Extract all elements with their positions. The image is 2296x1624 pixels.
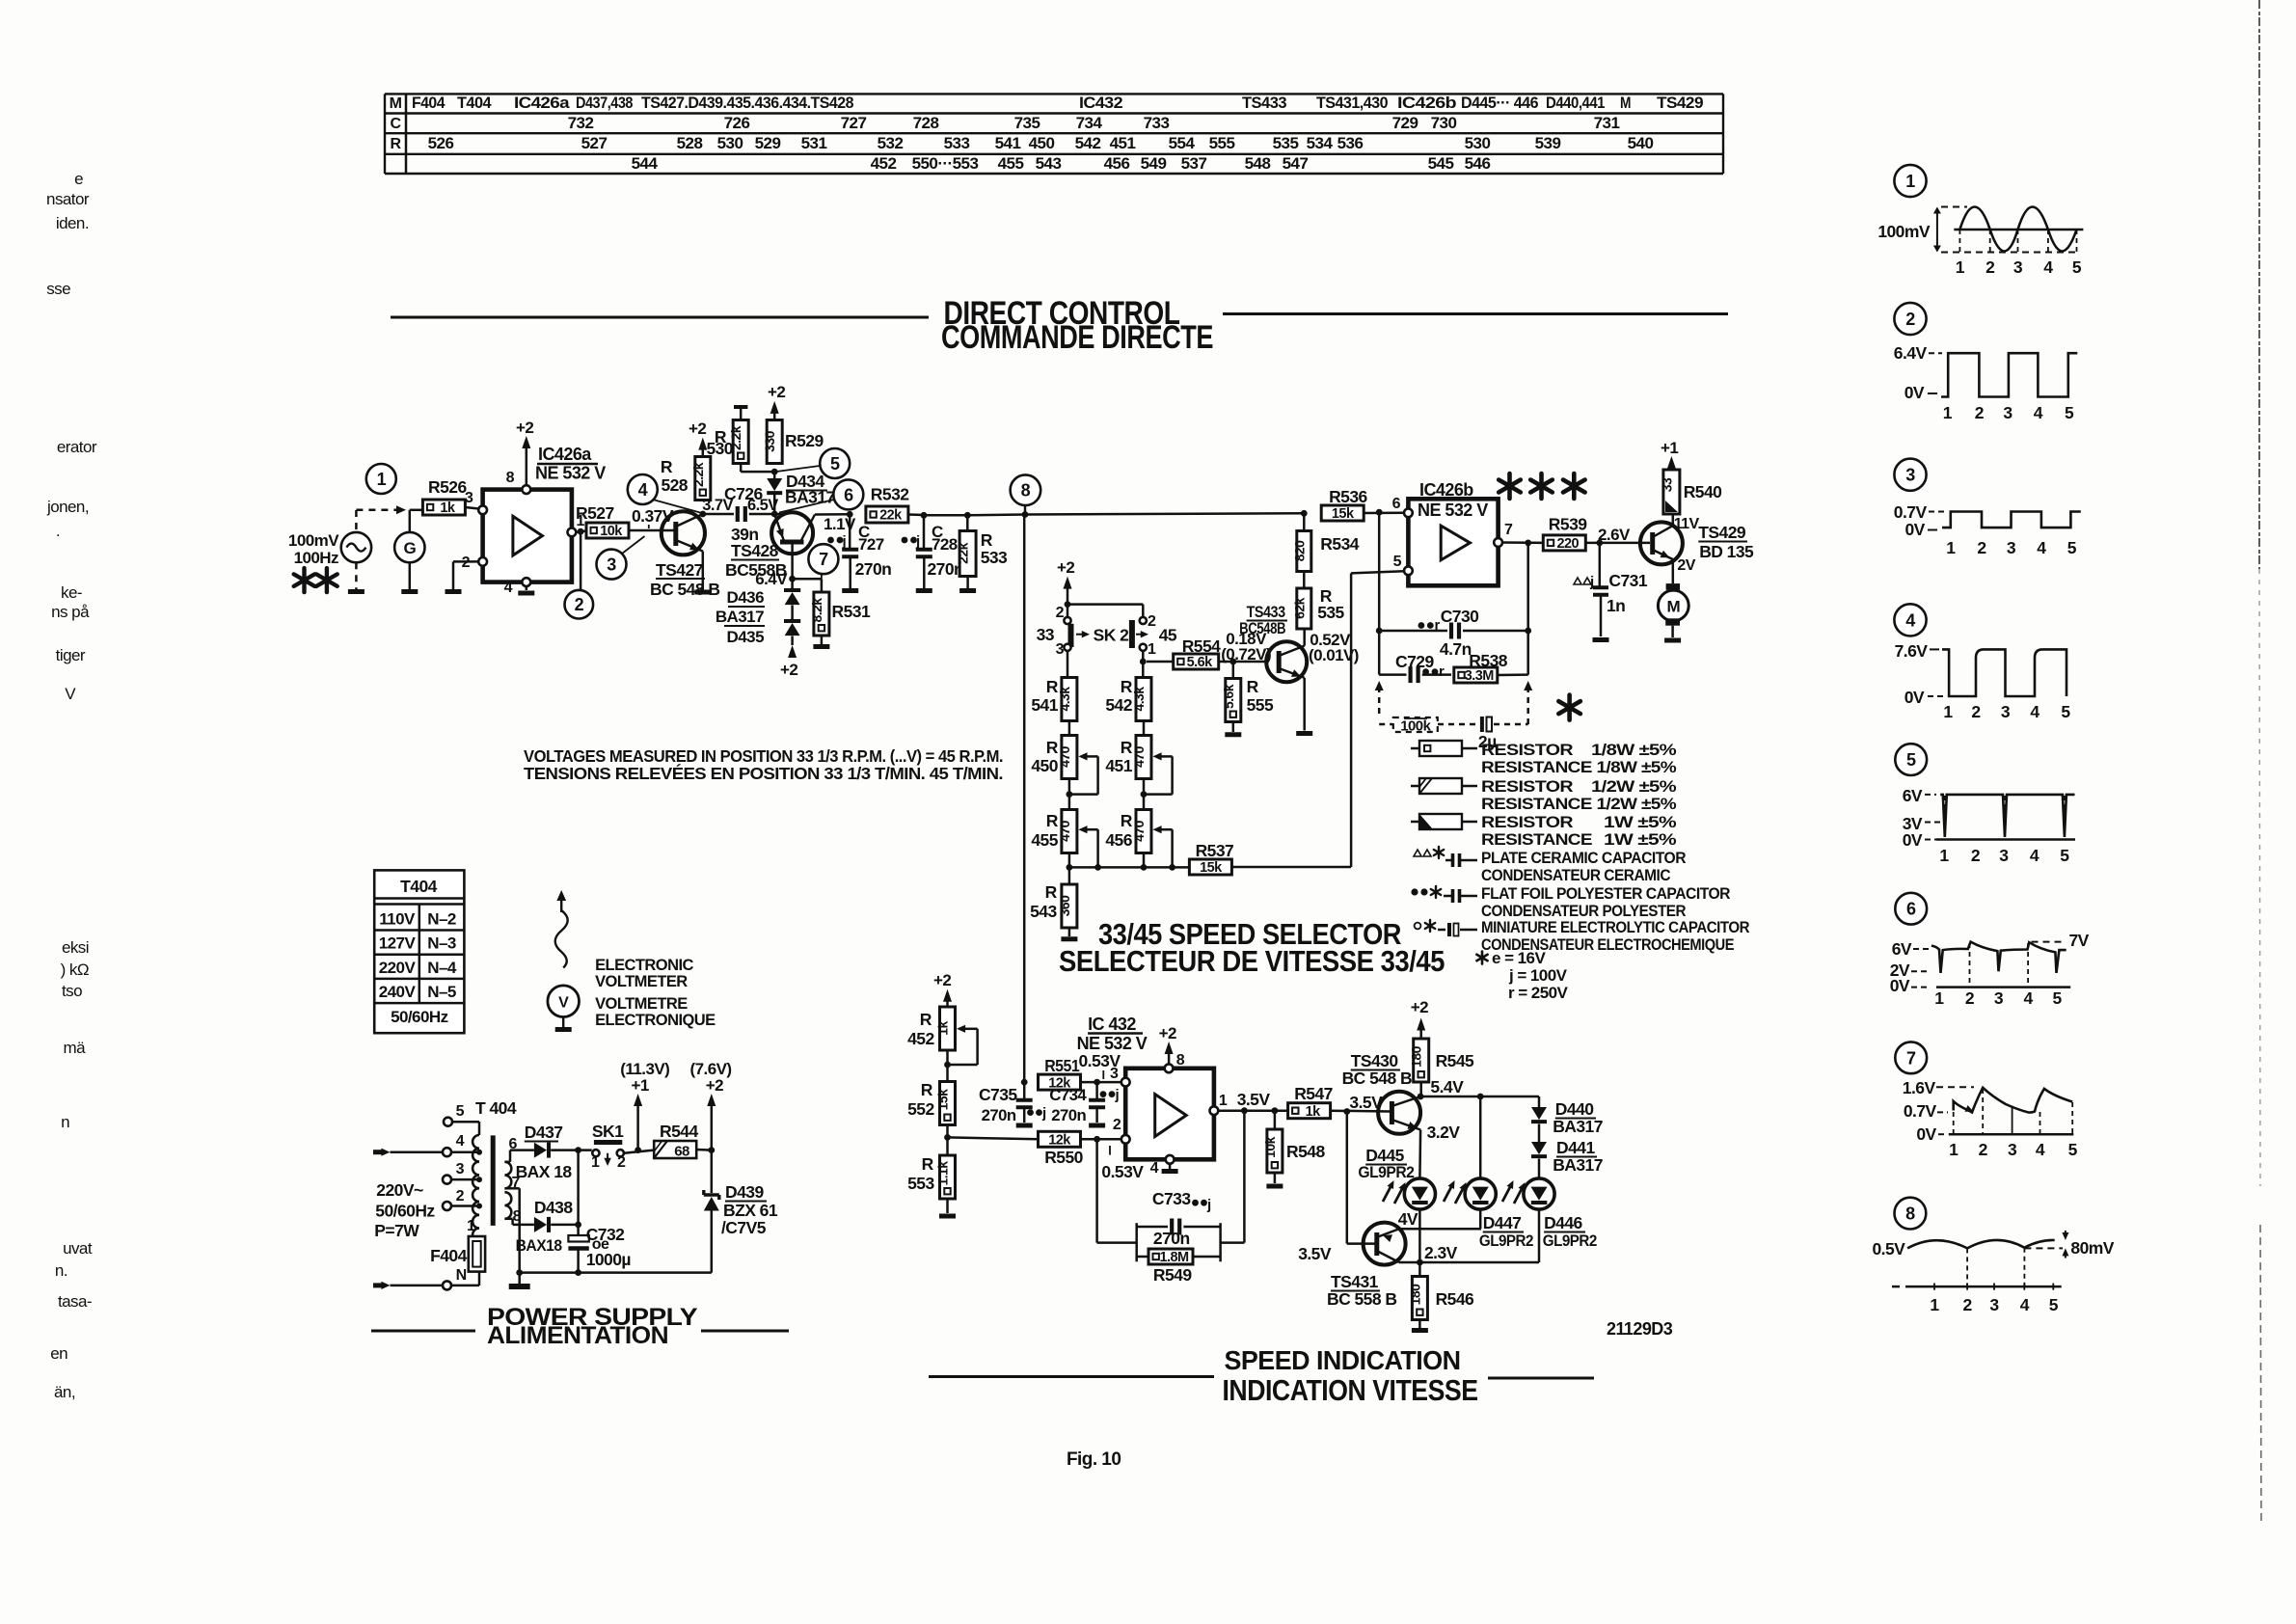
svg-text:1: 1 [1934, 988, 1944, 1008]
wire 4V link [1399, 1228, 1481, 1231]
svg-text:BC 558 B: BC 558 B [1327, 1289, 1396, 1309]
resistor R527 [576, 503, 629, 539]
wire 45 contact to R542 [1142, 651, 1145, 677]
svg-text:543: 543 [1030, 902, 1057, 921]
wire SK1 to R544 [624, 1150, 654, 1153]
svg-text:D440,441: D440,441 [1546, 94, 1605, 112]
test point 1 [366, 464, 396, 494]
svg-text:68: 68 [674, 1144, 689, 1160]
svg-text:3: 3 [1994, 988, 2004, 1008]
svg-text:15k: 15k [1200, 860, 1223, 876]
svg-text:D438: D438 [534, 1198, 573, 1217]
svg-text:R551: R551 [1044, 1056, 1080, 1075]
rail stub above R530 [734, 407, 747, 420]
svg-text:0V: 0V [1916, 1124, 1936, 1144]
svg-text:R: R [921, 1080, 933, 1099]
svg-text:NE 532 V: NE 532 V [1418, 501, 1488, 520]
svg-text:+2: +2 [1057, 558, 1074, 577]
legend resistor 1W [1411, 813, 1677, 849]
wire 2.3V bus [1399, 1243, 1539, 1262]
wire 5.4V rail [1420, 1096, 1539, 1098]
ground [348, 589, 365, 594]
note voltages measured [524, 746, 1003, 783]
wire R552 R553 [946, 1125, 949, 1155]
capacitor C734 [1049, 1082, 1119, 1124]
svg-text:3: 3 [607, 555, 616, 575]
diode D438 [516, 1198, 574, 1255]
svg-text:5: 5 [2049, 1295, 2059, 1314]
svg-text:ALIMENTATION: ALIMENTATION [487, 1322, 668, 1349]
svg-text:8.2k: 8.2k [809, 598, 824, 623]
supply +2 to R528 [689, 420, 707, 457]
svg-text:TS433: TS433 [1242, 94, 1286, 112]
T404 voltage table [374, 870, 464, 1033]
svg-text:727: 727 [841, 114, 867, 132]
wire TS433 emitter ground [1303, 678, 1306, 731]
wire D446 to bus [1538, 1209, 1541, 1262]
svg-text:2: 2 [1977, 538, 1986, 557]
wire R536 to pin6 [1364, 512, 1404, 515]
svg-text:BAX 18: BAX 18 [516, 1162, 573, 1181]
waveform 7 [1895, 1042, 2077, 1159]
op-amp IC426a [462, 445, 607, 596]
node bus mid [1141, 864, 1175, 871]
wire ground bus power [520, 1271, 712, 1274]
resistor R538 [1454, 651, 1508, 684]
svg-text:4: 4 [2020, 1295, 2030, 1314]
svg-text:180: 180 [1409, 1045, 1424, 1067]
svg-text:6.4V: 6.4V [755, 570, 788, 588]
transistor TS433 [1239, 603, 1307, 682]
svg-text:3: 3 [465, 490, 473, 506]
svg-text:IC426a: IC426a [538, 445, 592, 464]
supply +2 SK2 [1057, 558, 1074, 621]
svg-text:1: 1 [1219, 1093, 1228, 1109]
svg-text:3.2V: 3.2V [1427, 1123, 1461, 1142]
svg-text:452: 452 [871, 154, 897, 173]
svg-text:2: 2 [1963, 1295, 1973, 1314]
svg-text:erator: erator [57, 438, 97, 456]
labels TS433 voltages [1221, 630, 1271, 663]
svg-text:3: 3 [1056, 641, 1065, 658]
ground [401, 589, 418, 594]
svg-text:tasa-: tasa- [58, 1292, 92, 1311]
svg-text:451: 451 [1110, 134, 1136, 152]
wire R527 to TS427 base [629, 529, 674, 532]
svg-text:N–4: N–4 [427, 959, 457, 977]
svg-text:6: 6 [1906, 900, 1916, 919]
svg-text:220: 220 [1557, 536, 1580, 552]
svg-text:5.6k: 5.6k [1187, 655, 1214, 670]
svg-text:j: j [1589, 574, 1594, 590]
svg-text:r: r [1439, 663, 1445, 680]
resistor R534 [1291, 531, 1359, 572]
svg-text:1: 1 [1943, 403, 1953, 422]
capacitor C735 [979, 1082, 1046, 1124]
svg-text:62k: 62k [1291, 597, 1307, 618]
svg-text:3: 3 [1989, 1295, 1999, 1314]
svg-text:VOLTAGES MEASURED IN POSITI: VOLTAGES MEASURED IN POSITION 33 1/3 R.P… [524, 746, 1003, 766]
supply +2 R452 [933, 971, 952, 1007]
svg-text:F404: F404 [412, 94, 446, 112]
svg-text:D441: D441 [1556, 1138, 1595, 1157]
test point 2 [565, 590, 594, 619]
wire R541 R450 [1068, 721, 1071, 737]
wire R555 ground [1232, 723, 1235, 733]
diodes D436 D435 [716, 579, 800, 646]
svg-text:526: 526 [428, 134, 454, 152]
ground [1664, 638, 1681, 643]
resistor R551 [1039, 1056, 1081, 1091]
wire R553 ground [946, 1199, 949, 1213]
svg-text:D445: D445 [1365, 1146, 1404, 1165]
svg-text:470: 470 [1057, 745, 1072, 767]
svg-text:552: 552 [907, 1099, 934, 1119]
wire R550 left [948, 1137, 1039, 1139]
svg-text:1: 1 [1939, 846, 1949, 865]
svg-text:SELECTEUR DE VITESSE 33/45: SELECTEUR DE VITESSE 33/45 [1059, 944, 1445, 978]
resistor R530 [706, 420, 748, 464]
ground [1296, 731, 1312, 736]
labels TS433 collector voltages [1309, 631, 1359, 664]
svg-text:4: 4 [1150, 1160, 1159, 1177]
parts cross-reference table [385, 94, 1723, 174]
supply +1 to R540 [1661, 439, 1678, 470]
svg-text:IC426b: IC426b [1397, 94, 1456, 112]
svg-text:VOLTMETRE: VOLTMETRE [595, 995, 688, 1013]
resistor R554 [1174, 636, 1221, 670]
svg-text:j: j [1115, 1087, 1120, 1103]
svg-text:än,: än, [54, 1383, 75, 1401]
svg-text:548: 548 [1245, 154, 1271, 173]
resistor R540 [1659, 470, 1722, 514]
svg-text:BAX18: BAX18 [516, 1236, 562, 1255]
svg-text:+2: +2 [689, 420, 706, 438]
svg-text:5.4V: 5.4V [1430, 1077, 1464, 1096]
wire R450 R455 [1068, 779, 1071, 811]
svg-text:2V: 2V [1677, 557, 1695, 574]
svg-text:R529: R529 [785, 431, 824, 450]
resistor R555 [1221, 662, 1274, 722]
svg-text:jonen,: jonen, [46, 498, 89, 516]
svg-text:M: M [1620, 94, 1631, 112]
svg-text:5: 5 [456, 1103, 465, 1120]
wire R539 to TS429 [1585, 542, 1650, 545]
svg-text:5: 5 [2067, 538, 2077, 557]
node R546 [1417, 1259, 1423, 1266]
svg-text:4: 4 [2043, 257, 2053, 277]
svg-text:535: 535 [1273, 134, 1299, 152]
svg-text:1: 1 [1949, 1140, 1958, 1159]
svg-text:4.7n: 4.7n [1440, 639, 1472, 659]
svg-text:D447: D447 [1483, 1213, 1522, 1232]
LED D446 [1502, 1178, 1597, 1250]
svg-text:547: 547 [1283, 154, 1309, 173]
supply +2 to pin 8 [516, 419, 533, 485]
legend resistor 1/8W [1411, 741, 1677, 776]
svg-text:R: R [390, 136, 401, 152]
resistor R548 [1262, 1111, 1326, 1183]
node SK2 top [1065, 601, 1071, 608]
node pin2 [1094, 1136, 1100, 1143]
svg-text:726: 726 [724, 114, 750, 132]
capacitor C730 [1379, 607, 1528, 659]
svg-text:G: G [403, 539, 416, 557]
title POWER SUPPLY [371, 1304, 789, 1349]
supply +2 R545 [1411, 998, 1428, 1038]
wire to 45 contact [1067, 605, 1143, 616]
svg-text:10k: 10k [600, 524, 623, 539]
svg-text:220V~: 220V~ [376, 1180, 423, 1200]
svg-text:TS431,430: TS431,430 [1316, 94, 1388, 112]
svg-text:D445··· 446: D445··· 446 [1461, 94, 1538, 112]
svg-text:RESISTANCE: RESISTANCE [1481, 830, 1592, 849]
ground [916, 588, 932, 593]
ground [959, 588, 976, 593]
resistor R541 [1031, 677, 1077, 721]
resistor R535 [1291, 586, 1344, 629]
svg-text:2: 2 [617, 1154, 626, 1171]
svg-text:127V: 127V [379, 934, 417, 953]
svg-text:270n: 270n [855, 559, 892, 579]
svg-text:ELECTRONIQUE: ELECTRONIQUE [595, 1012, 716, 1029]
ground [555, 1027, 572, 1032]
svg-text:734: 734 [1076, 114, 1103, 132]
svg-text:1: 1 [1148, 641, 1156, 658]
wire to node 8 [967, 513, 1025, 516]
node output [1237, 1090, 1271, 1114]
svg-text:3: 3 [1999, 846, 2009, 865]
node R548 [1272, 1107, 1279, 1114]
svg-text:/C7V5: /C7V5 [721, 1218, 767, 1237]
svg-text:450: 450 [1031, 756, 1058, 775]
voltmeter caption [595, 957, 716, 1029]
resistor R450 preset [1031, 736, 1097, 795]
capacitor C729 [1379, 652, 1451, 683]
wire TS428 collector to node [815, 513, 850, 516]
waveform 4 [1894, 604, 2070, 721]
svg-text:33: 33 [1659, 477, 1674, 492]
svg-text:R: R [1247, 677, 1259, 696]
transistor TS427 [650, 511, 719, 599]
wire R546 ground [1418, 1320, 1421, 1329]
svg-text:D446: D446 [1544, 1213, 1582, 1232]
svg-text:5: 5 [1393, 554, 1402, 570]
label 0.53V pin3 [1079, 1051, 1121, 1082]
svg-text:550···553: 550···553 [912, 154, 979, 173]
svg-text:22k: 22k [956, 542, 971, 563]
svg-text:MINIATURE ELECTROLYTIC CAPAC: MINIATURE ELECTROLYTIC CAPACITOR [1481, 918, 1749, 936]
node C731 [1596, 526, 1631, 546]
svg-text:540: 540 [1628, 134, 1654, 152]
svg-text:470: 470 [1131, 745, 1147, 767]
svg-text:2: 2 [1975, 403, 1985, 422]
svg-text:2.3V: 2.3V [1424, 1243, 1458, 1262]
svg-text:P=7W: P=7W [374, 1221, 419, 1240]
svg-text:100mV: 100mV [1877, 222, 1931, 241]
svg-text:5: 5 [830, 454, 840, 474]
svg-text:1: 1 [591, 1154, 600, 1171]
svg-text:R545: R545 [1436, 1051, 1474, 1070]
svg-text:3: 3 [2001, 702, 2011, 721]
svg-text:+2: +2 [780, 661, 797, 679]
svg-text:R534: R534 [1320, 534, 1359, 554]
svg-text:0V: 0V [1890, 976, 1910, 995]
svg-text:(0.01V): (0.01V) [1309, 646, 1359, 664]
switch SK2 45 side [1132, 613, 1177, 658]
svg-text:R: R [661, 457, 673, 476]
svg-text:tso: tso [62, 982, 82, 1000]
svg-text:542: 542 [1075, 134, 1101, 152]
svg-text:0V: 0V [1904, 520, 1925, 539]
svg-text:528: 528 [677, 134, 703, 152]
svg-text:536: 536 [1337, 134, 1364, 152]
wire TS428 base down [791, 545, 794, 580]
svg-text:T404: T404 [457, 94, 492, 112]
svg-text:546: 546 [1465, 154, 1491, 173]
page edge lines [2259, 0, 2261, 1524]
svg-text:sse: sse [46, 280, 70, 298]
ground [1061, 936, 1077, 941]
wire R554 wires [1147, 661, 1266, 663]
svg-text:545: 545 [1428, 154, 1454, 173]
svg-text:RESISTOR: RESISTOR [1481, 741, 1573, 759]
svg-text:R532: R532 [871, 485, 909, 504]
wire 6.4V to R531 [793, 579, 822, 591]
svg-text:4: 4 [2036, 1140, 2045, 1159]
node rectifier [575, 1147, 581, 1153]
wire TS430 emitter to D445 [1419, 1123, 1460, 1178]
LED D445 [1358, 1146, 1435, 1209]
svg-text:7: 7 [1906, 1048, 1916, 1068]
svg-text:0V: 0V [1904, 383, 1925, 402]
svg-text:4: 4 [2030, 846, 2039, 865]
svg-text:+2: +2 [1159, 1024, 1176, 1042]
svg-text:4: 4 [2037, 538, 2046, 557]
svg-text:5.6k: 5.6k [1221, 684, 1236, 709]
svg-text:j: j [1041, 1105, 1046, 1122]
svg-text:R526: R526 [428, 477, 467, 497]
ground [1162, 1169, 1178, 1174]
wire source to ground [355, 562, 358, 589]
svg-text:0.7V: 0.7V [1894, 502, 1928, 522]
svg-text:5: 5 [1906, 750, 1916, 770]
svg-text:3: 3 [2008, 1140, 2017, 1159]
svg-text:+2: +2 [768, 383, 785, 401]
waveform 6 [1890, 893, 2090, 1008]
svg-text:R539: R539 [1549, 515, 1587, 534]
svg-text:ke-: ke- [61, 583, 82, 602]
wire rectifier vertical [577, 1150, 580, 1235]
node TS430 base [1343, 1093, 1383, 1115]
svg-text:j = 100V: j = 100V [1508, 966, 1568, 985]
svg-text:n.: n. [55, 1261, 68, 1280]
signal source 100mV 100Hz [288, 531, 371, 567]
wire R526 to pin3 [465, 507, 478, 509]
ground [1412, 1328, 1428, 1333]
node R552 bottom [944, 1134, 951, 1141]
svg-text:1.8M: 1.8M [1159, 1250, 1189, 1265]
legend electrolytic capacitor [1415, 918, 1750, 954]
switch SK2 33 side [1037, 605, 1129, 658]
svg-text:R: R [1045, 882, 1058, 902]
svg-text:C731: C731 [1608, 571, 1647, 590]
svg-text:727: 727 [858, 535, 884, 554]
resistor R550 [1039, 1131, 1084, 1167]
svg-text:450: 450 [1029, 134, 1055, 152]
svg-text:220V: 220V [379, 959, 417, 977]
svg-text:539: 539 [1535, 134, 1561, 152]
legend resistor 1/2W [1411, 777, 1677, 813]
svg-text:CONDENSATEUR CERAMIC: CONDENSATEUR CERAMIC [1481, 866, 1670, 884]
waveform 5 [1895, 744, 2075, 865]
svg-text:GL9PR2: GL9PR2 [1479, 1232, 1533, 1250]
svg-text:R549: R549 [1153, 1265, 1192, 1285]
wire R543 ground [1068, 928, 1071, 936]
node bus left [1067, 864, 1102, 871]
resistor R533 [956, 515, 1008, 588]
svg-text:2: 2 [1113, 1117, 1121, 1133]
svg-text:535: 535 [1317, 603, 1344, 622]
svg-text:4: 4 [2034, 403, 2043, 422]
svg-text:6: 6 [1392, 496, 1401, 512]
svg-text:D439: D439 [725, 1182, 764, 1202]
svg-text:4: 4 [1905, 610, 1915, 630]
svg-text:IC432: IC432 [1079, 94, 1122, 112]
svg-text:(11.3V): (11.3V) [620, 1060, 669, 1078]
svg-text:554: 554 [1169, 134, 1196, 152]
svg-text:TS431: TS431 [1331, 1272, 1379, 1291]
svg-text:240V: 240V [379, 983, 417, 1001]
wire sec6 to D437 [504, 1150, 534, 1162]
svg-text:100k: 100k [1400, 718, 1431, 735]
svg-text:2: 2 [575, 595, 584, 614]
svg-text:470: 470 [1131, 820, 1147, 841]
svg-text:731: 731 [1594, 114, 1620, 132]
svg-text:R548: R548 [1286, 1142, 1325, 1161]
svg-text:537: 537 [1181, 154, 1207, 173]
svg-text:M: M [390, 95, 402, 112]
svg-text:R: R [981, 530, 993, 550]
node R533 [964, 512, 971, 519]
supply +2 to R529 [768, 383, 785, 420]
svg-text:532: 532 [878, 134, 904, 152]
svg-text:3: 3 [2007, 538, 2016, 557]
node R529 bottom [771, 469, 778, 475]
wire TS431 base [1347, 1112, 1375, 1244]
feedback vertical left [1378, 512, 1381, 674]
svg-text:1.6V: 1.6V [1903, 1078, 1936, 1097]
input stars [294, 568, 338, 592]
svg-text:541: 541 [995, 134, 1021, 152]
svg-text:1n: 1n [1607, 596, 1625, 615]
svg-text:V: V [65, 685, 76, 703]
svg-text:D435: D435 [727, 628, 765, 646]
svg-text:10k: 10k [1262, 1136, 1278, 1157]
legend voltage codes [1476, 949, 1568, 1002]
svg-text:NE 532 V: NE 532 V [1077, 1034, 1148, 1053]
svg-text:100Hz: 100Hz [294, 549, 338, 567]
svg-text:BA317: BA317 [1553, 1155, 1603, 1175]
ground [518, 591, 534, 596]
waveform 2 [1894, 303, 2078, 422]
svg-text:360: 360 [1057, 895, 1072, 916]
svg-text:533: 533 [944, 134, 970, 152]
supply +2 output [690, 1060, 732, 1150]
svg-text:3.3M: 3.3M [1465, 668, 1495, 684]
resistor R549 [1137, 1249, 1221, 1285]
node R555 tap [1229, 659, 1236, 665]
